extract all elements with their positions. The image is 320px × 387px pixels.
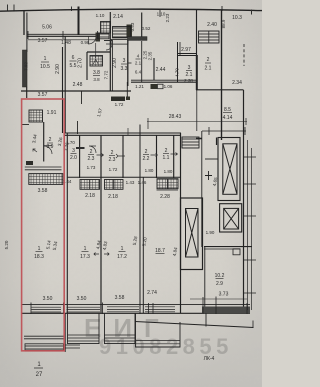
unit wall x123 (122, 135, 124, 178)
svg-text:28.43: 28.43 (169, 114, 182, 120)
top dim ticks at y34 (28, 31, 98, 39)
svg-text:1.1: 1.1 (163, 155, 170, 161)
red box loggia rails (25, 167, 62, 170)
unit wall x101 long (100, 135, 102, 313)
svg-text:5.06: 5.06 (42, 25, 52, 31)
dark stub x126-130 (126, 97, 130, 101)
svg-text:1.72: 1.72 (115, 102, 124, 107)
svg-text:1.91: 1.91 (47, 110, 57, 116)
svg-text:2.3: 2.3 (109, 157, 116, 163)
svg-text:ЛК-4: ЛК-4 (204, 356, 215, 362)
svg-text:1.80: 1.80 (164, 169, 173, 174)
svg-text:2.3: 2.3 (88, 156, 95, 162)
svg-text:2.28: 2.28 (160, 194, 170, 200)
svg-text:2: 2 (207, 57, 210, 63)
svg-text:3.8: 3.8 (93, 70, 100, 76)
svg-text:2.0: 2.0 (70, 155, 77, 161)
wall y133 main corridor top double (64, 132, 181, 134)
dashed window line right (243, 44, 245, 66)
svg-text:1.10: 1.10 (96, 13, 105, 18)
svg-text:4.14: 4.14 (223, 115, 233, 121)
small arrow red box hall (33, 149, 37, 152)
stair grid box top (101, 22, 111, 34)
small box right (233, 249, 240, 255)
top outer wall double line left segment (27, 33, 98, 35)
balcony box A (68, 313, 100, 343)
red box hall: grid box (29, 110, 43, 122)
wall stub x127.3 (126, 82, 128, 97)
svg-text:4.70: 4.70 (175, 68, 180, 77)
svg-text:1: 1 (44, 56, 47, 62)
svg-text:10.2: 10.2 (215, 273, 225, 279)
unit wall double x135.5/138.5 (139, 125, 141, 314)
svg-text:27: 27 (36, 372, 43, 378)
svg-text:1: 1 (38, 246, 41, 252)
door arrow bold unit2 (76, 147, 85, 149)
svg-text:6.4: 6.4 (135, 70, 142, 75)
svg-text:0.53: 0.53 (130, 22, 135, 31)
unit2 left wall x67 (66, 133, 68, 313)
small box below stairs (111, 40, 128, 45)
svg-text:3.57: 3.57 (38, 92, 48, 98)
svg-text:2.74: 2.74 (147, 290, 157, 296)
elevator2 lower outer shaft (220, 204, 242, 232)
wall x64-67 lower extension (64, 313, 66, 352)
dark stub stair bottom (96, 33, 101, 42)
svg-text:18.7: 18.7 (155, 248, 165, 254)
svg-text:1: 1 (121, 246, 124, 252)
unit wall x181 (180, 133, 182, 313)
door arrow unit2 (97, 154, 104, 157)
svg-text:2.44: 2.44 (156, 67, 166, 73)
right dim ticks (243, 157, 256, 293)
wall below elevator1 (181, 269, 203, 271)
door arc top room3 (106, 44, 112, 50)
door swing line room2 (93, 43, 98, 64)
svg-text:1.80: 1.80 (145, 168, 154, 173)
balcony box right (136, 313, 181, 347)
svg-text:1.21: 1.21 (135, 84, 144, 89)
red box hall vertical wall (43, 122, 45, 162)
wall tick y159 right column (205, 158, 218, 160)
wall x112.4 mid (111, 40, 113, 91)
wall cap y40.5 (104, 40, 112, 42)
open box kitchen right (158, 84, 164, 89)
svg-text:2.90: 2.90 (55, 64, 61, 74)
stair stripe below grid (98, 33, 109, 39)
red box dark stub (26, 161, 33, 165)
door arrow unit5 (171, 153, 178, 156)
svg-text:3: 3 (72, 148, 75, 154)
wall vertical at x141.5 (141, 13, 143, 38)
svg-text:3.50: 3.50 (43, 296, 53, 302)
ticks above border left (8, 5, 223, 12)
wall x141.7 lower (141, 41, 143, 82)
wall vertical at x160 tick (159, 10, 161, 18)
svg-text:2.2: 2.2 (143, 156, 150, 162)
svg-text:1.06: 1.06 (164, 84, 173, 89)
wall below hatch unit4 (157, 189, 179, 191)
dark box kitchen right (151, 84, 158, 89)
bath hatch box unit4 (157, 179, 178, 189)
left outer wall thin upper (26, 13, 28, 53)
svg-text:2.97: 2.97 (181, 47, 191, 53)
elevator2 upper outer shaft (218, 138, 240, 201)
wall stub x81.5 below y91 (81, 91, 83, 104)
room1 right wall double (62, 47, 64, 133)
wall vertical x177 double (177, 42, 179, 82)
south wall bottom line (21, 312, 250, 314)
svg-text:2.1: 2.1 (205, 66, 212, 72)
wall vertical at x110 upper (109, 12, 111, 40)
stub stripes right of red box (65, 345, 80, 348)
svg-text:2.34: 2.34 (232, 80, 242, 86)
red box hall wall stub (22, 124, 29, 126)
right dim chain vertical (248, 140, 252, 310)
tick right edge top (251, 10, 253, 15)
svg-text:3.3: 3.3 (121, 66, 128, 72)
svg-text:3.73: 3.73 (219, 292, 229, 298)
door arc unit2 room (89, 146, 96, 153)
wall x196.5 thick lower (196, 55, 198, 90)
svg-text:5.20: 5.20 (4, 240, 9, 249)
room2 inner wall horizontal y52 (87, 51, 110, 53)
svg-text:2: 2 (49, 137, 52, 143)
svg-text:1: 1 (84, 246, 87, 252)
dark wall block left of stair (127, 25, 133, 37)
top border line (0, 9, 262, 11)
svg-text:1.46: 1.46 (138, 180, 147, 185)
door arc room2 top (89, 37, 97, 45)
elevator2 upper X box (223, 144, 237, 195)
svg-text:7.72: 7.72 (104, 70, 109, 79)
svg-text:2.70: 2.70 (78, 58, 84, 68)
svg-text:2.35: 2.35 (148, 51, 153, 60)
svg-text:3: 3 (123, 58, 126, 64)
red box loggia hatch (29, 174, 63, 185)
svg-text:2.18: 2.18 (85, 193, 95, 199)
room2 inner wall vertical x87 (86, 52, 88, 80)
stair striped box top (113, 27, 131, 38)
wall x196.5 lower (196, 82, 198, 131)
balcony red-box bottom line (25, 350, 64, 352)
wall x202 right column upper (201, 131, 203, 247)
unit walls x79.6 (79, 135, 81, 178)
wall stub x215 (216, 138, 218, 146)
svg-text:1.72: 1.72 (109, 167, 118, 172)
svg-text:0.52: 0.52 (142, 26, 151, 31)
dim line y131 right (202, 130, 246, 132)
corridor wall y177 (67, 176, 181, 178)
svg-text:2.48: 2.48 (73, 82, 83, 88)
red box door leaf (44, 145, 52, 147)
wall x110 mid (109, 40, 111, 91)
svg-text:10.5: 10.5 (40, 64, 50, 70)
wall stub x206 bottom (205, 313, 207, 326)
svg-text:5.5: 5.5 (70, 63, 77, 69)
wall vertical at x24 top-left (23, 11, 25, 36)
elevator1 inner X box (186, 209, 199, 258)
red highlight box (22, 99, 65, 351)
right outer wall x243.5 (243, 90, 245, 313)
bath hatch box unit3 (105, 180, 124, 190)
hatched wall above elevator1 (182, 137, 199, 148)
svg-text:2.23: 2.23 (165, 13, 170, 22)
dim line y299 right (190, 298, 247, 300)
svg-text:1.43: 1.43 (126, 180, 135, 185)
wall stub x77.5 above y133 (77, 121, 79, 134)
left outer wall thin lower (26, 87, 28, 98)
balcony red-box top rails (24, 336, 65, 339)
svg-text:3.58: 3.58 (115, 295, 125, 301)
unit wall x156.5 (156, 135, 158, 178)
svg-text:10.3: 10.3 (232, 15, 242, 21)
dash x128 y63 (128, 62, 132, 64)
stair striped box right (199, 31, 220, 43)
balcony box B (105, 313, 136, 343)
hatched wall segment x131-147 (128, 37, 148, 41)
svg-text:6: 6 (72, 55, 75, 61)
elevator2 lower X box (224, 208, 239, 229)
south wall top line (21, 304, 250, 306)
svg-text:88.9: 88.9 (221, 19, 226, 28)
svg-text:8.5: 8.5 (224, 107, 231, 113)
svg-text:1.48: 1.48 (61, 40, 71, 46)
terrace line right (135, 322, 254, 328)
wall x204.8 right column lower (204, 247, 206, 310)
wall x154 (153, 58, 155, 81)
wall cross right column (205, 171, 212, 180)
svg-text:2: 2 (90, 149, 93, 155)
left outer wall thick segment (23, 50, 28, 87)
svg-text:17.3: 17.3 (80, 254, 90, 260)
terrace end vertical (252, 321, 254, 329)
svg-text:3: 3 (188, 65, 191, 71)
door arc hall red box (44, 146, 52, 154)
door arrow unit4b (151, 154, 158, 157)
wall y81 segment x131-196 (131, 79, 196, 81)
svg-text:2.1: 2.1 (135, 61, 142, 66)
wall y90 segment x196-243 (196, 89, 244, 91)
south wall dark segment right (202, 307, 250, 314)
dim line y39.8 top-left (28, 39, 97, 41)
dim line y121 corridor (147, 121, 247, 123)
svg-text:2: 2 (165, 148, 168, 154)
svg-text:2.38: 2.38 (184, 78, 193, 83)
wall vertical at x196 (196, 10, 198, 56)
door arrow unit4a (127, 128, 129, 135)
svg-text:1.90: 1.90 (206, 230, 215, 235)
vent grid box kitchen (90, 56, 103, 67)
svg-text:2: 2 (111, 150, 114, 156)
room1 bottom wall (21, 90, 131, 92)
svg-text:2.40: 2.40 (207, 22, 217, 28)
svg-text:7.92: 7.92 (24, 62, 29, 71)
bath hatch box unit2 (80, 180, 100, 190)
svg-text:1.73: 1.73 (87, 165, 96, 170)
svg-text:3.8: 3.8 (93, 77, 100, 82)
door arrow unit3 (116, 154, 125, 158)
svg-text:2.18: 2.18 (108, 194, 118, 200)
wall y54 segment x177-196 (177, 53, 196, 55)
svg-text:2.9: 2.9 (216, 281, 223, 287)
south wall stripe segments (32, 307, 62, 312)
svg-text:18.3: 18.3 (34, 254, 44, 260)
wall x127.8 (127, 40, 129, 86)
door arrows wall x101 (94, 253, 109, 256)
wall y247 right (204, 246, 252, 248)
wall stub y37.8 (112, 37, 128, 39)
svg-text:3.58: 3.58 (38, 188, 48, 194)
svg-text:3.57: 3.57 (38, 38, 48, 44)
wall vertical at x78 (78, 7, 80, 36)
wall vertical at x222 (221, 10, 223, 140)
svg-text:17.2: 17.2 (117, 254, 127, 260)
svg-text:3.50: 3.50 (77, 296, 87, 302)
svg-text:2: 2 (145, 149, 148, 155)
svg-text:2.90: 2.90 (112, 58, 118, 68)
wall stub right column (196, 138, 202, 140)
unit wall x173.7 (173, 135, 175, 178)
svg-text:2.14: 2.14 (113, 14, 123, 20)
elevator1 outer shaft (181, 198, 203, 270)
dim chain ticks (31, 297, 247, 315)
black wall stub corridor (111, 97, 125, 102)
balcony red-box hatch (25, 344, 64, 351)
